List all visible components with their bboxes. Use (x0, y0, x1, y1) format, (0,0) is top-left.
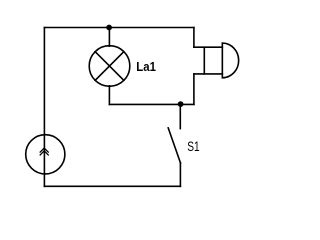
node junction bottom (178, 101, 184, 107)
bell crossbar (203, 47, 205, 74)
wire lamp top lead (108, 28, 110, 47)
wire right branch lower vertical (193, 74, 195, 105)
svg-text:La1: La1 (136, 59, 156, 74)
wire top horizontal (44, 27, 194, 29)
bell top lead (194, 46, 222, 48)
bell dome (222, 43, 238, 78)
svg-text:S1: S1 (187, 139, 199, 154)
current source (26, 135, 65, 174)
switch S1 top stub (179, 104, 181, 129)
switch S1 blade (168, 128, 180, 163)
switch S1 bottom stub (179, 163, 181, 186)
wire middle horizontal (109, 103, 193, 105)
bell bottom lead (194, 73, 222, 75)
wire bottom horizontal (44, 185, 180, 187)
wire right branch upper vertical (193, 28, 195, 48)
wire left vertical (43, 28, 45, 187)
lamp La1 (89, 46, 130, 87)
wire lamp bottom lead (108, 86, 110, 105)
node junction top (106, 25, 112, 31)
